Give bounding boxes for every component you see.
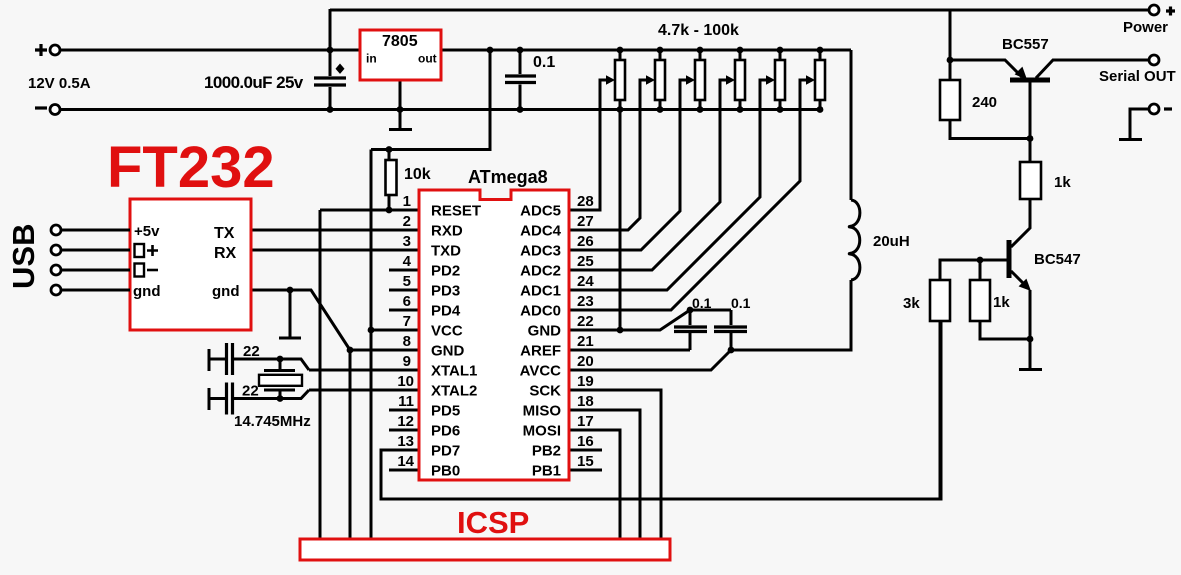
svg-text:12V 0.5A: 12V 0.5A [28,75,91,92]
svg-text:in: in [366,52,377,66]
svg-text:AREF: AREF [520,343,561,360]
svg-text:0.1: 0.1 [533,54,555,71]
svg-text:PD5: PD5 [431,403,460,420]
svg-text:240: 240 [972,94,997,111]
svg-text:PD4: PD4 [431,303,461,320]
svg-text:Serial OUT: Serial OUT [1099,68,1176,85]
svg-text:21: 21 [577,333,594,350]
svg-text:9: 9 [403,353,411,370]
svg-text:gnd: gnd [133,283,161,300]
svg-text:AVCC: AVCC [520,363,562,380]
svg-text:ICSP: ICSP [457,505,529,540]
svg-text:BC547: BC547 [1034,251,1081,268]
svg-text:ADC5: ADC5 [520,203,561,220]
svg-text:PD7: PD7 [431,443,460,460]
svg-text:11: 11 [398,393,414,410]
svg-text:SCK: SCK [529,383,561,400]
svg-text:ADC4: ADC4 [520,223,561,240]
svg-text:20: 20 [577,353,594,370]
svg-text:10k: 10k [404,166,431,183]
svg-text:2: 2 [403,213,411,230]
svg-text:28: 28 [577,193,594,210]
svg-text:14: 14 [397,453,414,470]
svg-text:PB2: PB2 [532,443,561,460]
svg-text:25: 25 [577,253,594,270]
svg-text:14.745MHz: 14.745MHz [234,413,311,430]
svg-text:3: 3 [403,233,411,250]
svg-text:23: 23 [577,293,594,310]
svg-text:3k: 3k [903,295,920,312]
svg-text:22: 22 [577,313,594,330]
svg-text:19: 19 [577,373,594,390]
svg-text:TX: TX [214,225,235,242]
svg-text:15: 15 [577,453,594,470]
svg-text:ADC1: ADC1 [520,283,561,300]
svg-text:0.1: 0.1 [692,295,712,311]
svg-text:out: out [418,52,437,66]
svg-text:1000.0uF 25v: 1000.0uF 25v [204,73,304,92]
svg-text:ATmega8: ATmega8 [468,167,548,187]
svg-text:22: 22 [242,383,259,400]
svg-text:8: 8 [403,333,411,350]
svg-text:PD6: PD6 [431,423,460,440]
svg-text:0.1: 0.1 [731,295,751,311]
svg-text:ADC3: ADC3 [520,243,561,260]
svg-text:PB1: PB1 [532,463,561,480]
svg-text:GND: GND [431,343,465,360]
svg-text:7805: 7805 [382,33,418,50]
svg-text:18: 18 [577,393,594,410]
svg-text:RESET: RESET [431,203,481,220]
svg-text:USB: USB [6,224,41,289]
svg-text:Power: Power [1123,19,1168,36]
svg-text:13: 13 [397,433,414,450]
svg-text:BC557: BC557 [1002,36,1049,53]
svg-text:16: 16 [577,433,594,450]
svg-text:24: 24 [577,273,594,290]
svg-text:26: 26 [577,233,594,250]
svg-text:20uH: 20uH [873,233,910,250]
svg-text:4: 4 [403,253,412,270]
svg-text:6: 6 [403,293,411,310]
svg-text:+5v: +5v [134,223,160,240]
svg-text:RX: RX [214,245,237,262]
svg-text:MISO: MISO [523,403,562,420]
svg-text:FT232: FT232 [107,135,275,200]
svg-text:PD3: PD3 [431,283,460,300]
svg-text:MOSI: MOSI [523,423,561,440]
svg-text:XTAL1: XTAL1 [431,363,477,380]
svg-text:GND: GND [528,323,562,340]
svg-text:1k: 1k [1054,174,1071,191]
svg-text:5: 5 [403,273,411,290]
svg-text:1k: 1k [993,294,1010,311]
svg-text:17: 17 [577,413,594,430]
svg-text:27: 27 [577,213,594,230]
svg-text:4.7k - 100k: 4.7k - 100k [658,22,739,39]
svg-text:PB0: PB0 [431,463,460,480]
svg-text:1: 1 [403,193,411,210]
svg-text:22: 22 [243,343,260,360]
svg-text:10: 10 [397,373,414,390]
svg-text:ADC2: ADC2 [520,263,561,280]
svg-text:12: 12 [397,413,414,430]
svg-text:ADC0: ADC0 [520,303,561,320]
svg-text:XTAL2: XTAL2 [431,383,477,400]
svg-text:PD2: PD2 [431,263,460,280]
svg-text:gnd: gnd [212,283,240,300]
svg-text:RXD: RXD [431,223,463,240]
svg-text:VCC: VCC [431,323,463,340]
svg-text:7: 7 [403,313,411,330]
svg-text:TXD: TXD [431,243,461,260]
